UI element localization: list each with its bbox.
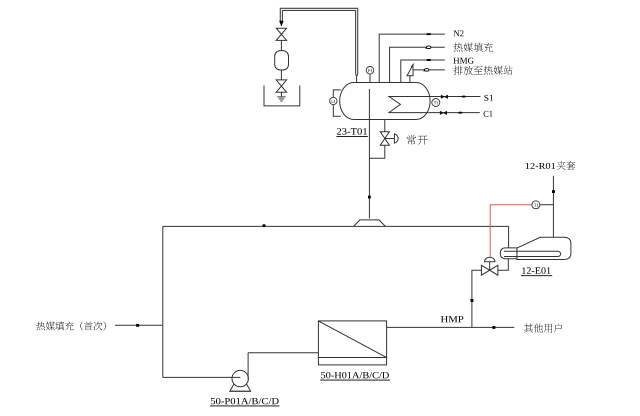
pressure gauge PI circle (366, 67, 374, 75)
exchanger 12-E01 channel head (500, 248, 517, 259)
pipe loop header down to exchanger inlet (508, 226, 510, 248)
dip tube inside vessel (368, 89, 370, 120)
pipe branch from vessel bottom to NO valve (384, 120, 386, 132)
pressure gauge PI stem (369, 74, 371, 82)
level instrument LI circle (330, 97, 337, 104)
pipe S1 steam line (430, 96, 480, 98)
flow arrow down (279, 21, 283, 27)
fitting on relief line (425, 69, 429, 72)
pipe loop left riser (162, 226, 164, 377)
label 热媒填充（首次） (36, 322, 45, 331)
label 50-H01A/B/C/D (321, 372, 389, 378)
pipe HMG line (401, 60, 445, 83)
label HMP (441, 316, 464, 322)
pipe below NO valve to main line (369, 145, 384, 158)
pipe C1 condensate line (428, 112, 480, 114)
fitting dot C1 (458, 112, 462, 114)
pipe relief discharge line (413, 69, 445, 71)
label HMG (453, 58, 473, 64)
valve NO actuator (385, 138, 395, 140)
catch pot (275, 51, 289, 70)
label S1 (484, 95, 493, 101)
exchanger inner tube in head (504, 251, 517, 256)
label 热媒填充 (454, 43, 463, 52)
signal line TI to jacket pipe (540, 204, 554, 206)
level instrument bracket (333, 90, 341, 116)
junction dot on HMP header (492, 326, 495, 329)
pipe HMP tee up to control valve (472, 270, 482, 327)
pipe to 12-R01 jacket (552, 176, 554, 238)
pipe hot media first fill line (115, 324, 163, 326)
vessel 23-T01 body (340, 83, 430, 120)
open drain tank (264, 86, 300, 106)
fitting dot S1 (462, 96, 466, 98)
pump 50-P01 casing circle (232, 370, 248, 386)
label 23-T01 (337, 128, 367, 135)
fitting on HMG line (426, 59, 431, 61)
heater bottom strip (318, 358, 386, 365)
label N2 (454, 30, 464, 36)
relief valve PSV triangle (407, 65, 413, 76)
heating element coil inside vessel (389, 97, 430, 113)
pump 50-P01 base (230, 384, 251, 392)
label 常开 (407, 135, 416, 145)
pump 50-P01 discharge stub (247, 353, 249, 380)
label C1 (484, 111, 493, 117)
pipe loop supply header (top) (163, 225, 509, 227)
pipe pump discharge to heater (248, 352, 318, 354)
valve V2 (drain) (276, 80, 286, 92)
valve NO (normally open) (380, 132, 389, 146)
label 12-E01 (522, 267, 550, 274)
exchanger 12-E01 body (517, 237, 571, 259)
control valve TV body (481, 265, 498, 275)
heater 50-H01 box (318, 321, 386, 358)
label 12-R01夹套 (526, 163, 555, 169)
junction dot on fill line (136, 324, 139, 327)
temperature instrument TI circle (532, 201, 540, 209)
fitting on N2 line (426, 33, 431, 35)
label 其他用户 (524, 324, 533, 333)
wire valve V1 to catch pot (280, 40, 282, 50)
control valve stem (489, 262, 491, 271)
valve on C1 line (440, 111, 447, 115)
valve on S1 line (441, 95, 448, 99)
junction dot on main line (368, 196, 371, 199)
exchanger inner tube (517, 251, 561, 256)
ground drain symbol (277, 97, 285, 101)
pipe HMP supply header (387, 326, 515, 328)
control valve diaphragm actuator (485, 257, 495, 262)
wire valve V2 to drain point (280, 92, 282, 96)
junction dot on riser (471, 299, 474, 302)
temperature gauge TI circle on vessel right head (432, 99, 440, 107)
pipe vent double-line from vessel to drain valve (280, 8, 357, 76)
pipe loop bottom to pump suction (163, 376, 241, 378)
wire catch pot to valve V2 (280, 70, 282, 80)
valve V1 (vent) (276, 28, 286, 40)
pipe main dip line down from vessel (368, 120, 370, 219)
relief valve PSV stem (409, 76, 411, 83)
nozzle boot on loop header (354, 220, 386, 227)
junction dot on jacket line (552, 190, 555, 193)
signal line red from TI to control valve (490, 205, 532, 257)
junction dot on header (263, 224, 266, 227)
label 排放至热媒站 (454, 66, 463, 75)
pipe control valve outlet to exchanger (498, 259, 508, 271)
heater diagonal (318, 321, 386, 358)
fitting on hot-media fill line (427, 46, 431, 49)
label 50-P01A/B/C/D (211, 398, 279, 404)
pipe hot-media fill line (390, 47, 445, 82)
pipe nozzle into vessel top (356, 76, 358, 83)
pipe N2 line (379, 34, 445, 83)
